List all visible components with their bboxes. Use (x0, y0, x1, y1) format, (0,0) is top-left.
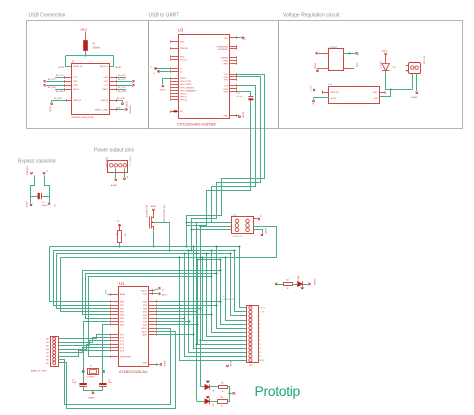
wire ADC6 to wrap (156, 328, 171, 330)
net arrow VIN (355, 52, 357, 55)
wire PD4 to mesh (156, 314, 212, 316)
svg-text:GOUT: GOUT (331, 98, 338, 100)
wire bypass to AGND (30, 196, 32, 203)
wire bus line 2 (53, 250, 235, 252)
capacitor C3 100nF (38, 193, 40, 199)
svg-text:GND_B: GND_B (100, 100, 108, 102)
resistor R6 1k (219, 386, 228, 389)
wire JP2 fan row6 (217, 247, 247, 329)
wire JP2 fan row1 (240, 247, 247, 308)
wire JP2 fan row9 (203, 258, 247, 341)
wire crystal gnd rail (83, 390, 103, 392)
svg-text:GND_A: GND_A (73, 99, 81, 102)
wire D2 to AGND (303, 284, 308, 286)
pin DN1 with net arrow (64, 85, 71, 87)
wire analog A5 (59, 351, 111, 357)
regulator output pin AVCC (323, 92, 329, 94)
wire nest line2 PB5 (86, 274, 217, 319)
svg-text:A1.B1: A1.B1 (116, 66, 123, 69)
wire XTAL1 to PB6 (84, 322, 111, 371)
svg-text:UGND: UGND (49, 106, 51, 112)
regulator enable pin wire to 5V (314, 97, 329, 99)
wire bypass left stub (31, 176, 35, 197)
LED D5 RX (206, 396, 210, 398)
terminal X1 pin 2 wire (344, 53, 355, 55)
resistor R3 1k (284, 283, 293, 286)
svg-text:Bypass capacitor: Bypass capacitor (18, 159, 56, 165)
svg-text:USB Connection: USB Connection (29, 13, 66, 19)
wire bundle tail W3 (192, 183, 217, 251)
U1 right pins PD0-PD7 ADC (149, 301, 156, 303)
wire VBUS to diode D1 (385, 55, 387, 64)
wire JP2 fan row11 (194, 247, 247, 349)
svg-text:AGND: AGND (264, 228, 267, 234)
wire PD6 to mesh (156, 321, 189, 323)
wire bypass right stub (45, 176, 50, 197)
wire JP2 fan row14 (180, 258, 247, 361)
svg-text:DN2: DN2 (104, 77, 109, 79)
capacitor C2 (99, 383, 106, 385)
wire bypass cap row (31, 196, 38, 198)
svg-text:VREGIN: VREGIN (180, 48, 188, 50)
svg-text:D-: D- (180, 71, 183, 73)
U3 right pins (230, 37, 237, 39)
capacitor C9 100nF (248, 96, 253, 98)
ground UGND left (50, 103, 53, 105)
wire junction to regulator VIN (380, 90, 391, 97)
regulator IC1 (329, 87, 380, 104)
svg-text:B7_CC2: B7_CC2 (118, 87, 126, 89)
svg-text:PWR_PINS: PWR_PINS (105, 157, 107, 168)
wire DTR to capacitor C9 (237, 92, 251, 97)
net label VBUS at U3 (163, 79, 171, 85)
svg-text:VBUS: VBUS (180, 78, 186, 80)
U3 NC pin mark (174, 110, 178, 112)
wire VBUS rail (66, 55, 114, 57)
wire RXD from U3 (197, 77, 261, 219)
svg-text:AGND: AGND (313, 279, 316, 285)
svg-text:GPIO.5: GPIO.5 (180, 97, 188, 99)
wire TX LED feeder bend (201, 386, 205, 388)
svg-text:VBUS: VBUS (80, 28, 87, 32)
svg-text:1k: 1k (221, 405, 223, 407)
svg-text:ADC6: ADC6 (141, 327, 147, 330)
ground AGND near JP2 (226, 365, 229, 367)
svg-text:GPIO.2/RS485: GPIO.2/RS485 (180, 87, 195, 89)
net arrow AVCC at U1 VCC (153, 293, 158, 295)
svg-text:MIC5205: MIC5205 (331, 92, 340, 94)
wire analog A1 (59, 338, 111, 343)
U1 pin AREF (111, 294, 118, 296)
net arrow 5V bypass (48, 203, 51, 205)
svg-text:PINHD-1X4: PINHD-1X4 (128, 156, 130, 167)
wire diode to gnd rail (386, 71, 413, 90)
svg-text:AREF: AREF (104, 290, 107, 296)
svg-text:AVCC: AVCC (162, 294, 168, 297)
wire bus line 4 (60, 257, 277, 259)
node LED 5V junction (228, 392, 230, 394)
ground AGND jack (416, 92, 419, 94)
net arrow AGND at D2 (308, 283, 310, 286)
wire jack pin2 to AGND (416, 74, 418, 92)
svg-text:ADC7: ADC7 (141, 330, 147, 333)
svg-text:GPIO.6: GPIO.6 (180, 99, 188, 101)
wire CTS from U3 (192, 86, 256, 223)
svg-text:A6_DP1: A6_DP1 (48, 78, 56, 81)
wire bus line 3 (57, 253, 230, 255)
ground AGND crystal (92, 392, 95, 394)
wire PD7 to mesh (156, 324, 198, 326)
frame USB to UART box (149, 21, 279, 129)
terminal X1 gnd wire (318, 69, 329, 70)
frame USB Connection box (27, 21, 149, 129)
wire C2 down (102, 386, 104, 390)
wire ISP AGND (254, 230, 263, 234)
wire JP2 fan row2 (235, 251, 247, 312)
LED D2 PWR (298, 281, 303, 287)
svg-text:CHR1: CHR1 (222, 61, 229, 63)
svg-text:RXD: RXD (224, 77, 229, 79)
net arrow at R3 (276, 283, 278, 286)
svg-text:SUSPEND: SUSPEND (218, 49, 229, 51)
svg-text:CHR0: CHR0 (222, 63, 229, 65)
wire bus line 5 (198, 259, 221, 261)
svg-text:AVCC: AVCC (309, 86, 312, 92)
svg-text:A5_CC1: A5_CC1 (56, 74, 64, 77)
diode D1 1N4007 (382, 64, 390, 71)
svg-text:CHREN: CHREN (221, 58, 229, 60)
power 5V at R1 (118, 225, 121, 227)
ground UGND right (121, 103, 124, 105)
svg-text:Voltage Regulation circuit: Voltage Regulation circuit (283, 13, 340, 19)
wire to VBUS_B pin (110, 56, 114, 67)
wire bus1 left wrap to PB0 (50, 247, 111, 302)
svg-text:22pF: 22pF (108, 382, 113, 384)
pin DP1 with net arrow (64, 81, 71, 83)
wire fuse to VBUS node (85, 51, 87, 56)
wire JP2 fan row4 (226, 258, 247, 321)
wire JP2 fan row10 (198, 260, 247, 345)
wire analog A0 (59, 335, 111, 339)
svg-text:1k: 1k (222, 391, 224, 393)
svg-text:A7_DN1: A7_DN1 (48, 86, 56, 89)
wire JP2 fan row12 (189, 251, 247, 353)
wire C9 down the bundle (187, 101, 251, 226)
wire reset switch to bus (153, 231, 155, 247)
svg-text:1 (RX): 1 (RX) (259, 308, 265, 310)
svg-text:Power output pins: Power output pins (94, 148, 135, 154)
svg-text:GND: GND (142, 363, 147, 365)
pin DN2 (110, 77, 117, 79)
pin CC2 with net arrow (110, 85, 117, 87)
svg-text:C-16MHz: C-16MHz (86, 377, 94, 379)
wire analog A3 (59, 345, 111, 350)
ground AGND bypass (30, 204, 33, 206)
wire XTAL2 to PB7 (103, 325, 111, 371)
wire power header 5V stub (124, 168, 126, 177)
svg-text:A8_SBU1: A8_SBU1 (56, 90, 66, 93)
wire ISP RESET (192, 229, 232, 231)
svg-text:GPIO.0/TXT: GPIO.0/TXT (180, 81, 192, 83)
svg-text:PGND: PGND (314, 63, 316, 69)
pin CC1 (64, 77, 71, 79)
svg-text:B5_DN2: B5_DN2 (118, 75, 126, 77)
wire crystal right to C2 (102, 373, 104, 383)
wire JP2 fan row3 (231, 254, 247, 316)
wire PD2 to mesh (156, 308, 201, 310)
svg-text:B1_GND: B1_GND (117, 98, 126, 100)
wire JP2 row9 from TX feeder (201, 340, 247, 342)
wire JP2 row10 from RX feeder (197, 344, 247, 346)
net arrow D- (158, 71, 171, 73)
node gate junction (168, 249, 170, 251)
svg-text:AGND: AGND (163, 361, 166, 367)
svg-text:B6_DP2: B6_DP2 (118, 79, 126, 81)
connector J5 USB-C receptacle (72, 64, 110, 115)
pin SBU1 (64, 89, 71, 91)
svg-text:22pF: 22pF (72, 382, 77, 384)
svg-text:CTS: CTS (224, 86, 229, 88)
svg-text:AVCC: AVCC (141, 290, 147, 293)
node R1 junction (118, 245, 120, 247)
wire nest line3 RESET (89, 277, 212, 357)
svg-text:UGND: UGND (125, 101, 127, 107)
wire to VBUS_A pin (66, 56, 72, 67)
wire PD3 to mesh (156, 311, 197, 313)
regulator GND pin stub (380, 92, 386, 94)
wire nest line1 PB4 (83, 271, 221, 315)
U1 GND pin wire (149, 364, 156, 366)
wire power header AGND stub (115, 168, 117, 178)
resistor R4 1k (218, 400, 228, 404)
net arrow D+ (155, 68, 171, 70)
svg-text:ATMEGA328-AU: ATMEGA328-AU (119, 370, 148, 374)
wire analog A4 (59, 348, 111, 353)
svg-text:2 (TX): 2 (TX) (259, 312, 265, 314)
wire switch gate to bus2 (155, 223, 170, 251)
svg-text:SHELL_GND: SHELL_GND (95, 109, 108, 111)
ground AGND at ISP (261, 234, 264, 236)
svg-text:ANALOG_PINS: ANALOG_PINS (31, 370, 47, 373)
LED D4 TX (206, 381, 210, 383)
resistor R1 10k (118, 231, 122, 243)
svg-text:VIN: VIN (374, 98, 378, 100)
svg-text:D-: D- (154, 73, 156, 75)
net arrow 5V power header (123, 178, 126, 180)
wire crystal left to C1 (83, 373, 85, 383)
svg-text:B8_GND: B8_GND (54, 98, 63, 100)
svg-text:0.1 uF: 0.1 uF (236, 96, 243, 98)
svg-text:PINHD-1X14: PINHD-1X14 (223, 299, 235, 301)
svg-text:GND: GND (373, 92, 378, 94)
svg-text:GND: GND (223, 115, 228, 117)
wire PD1 to mesh (156, 305, 216, 307)
svg-text:Prototip: Prototip (255, 383, 301, 399)
pin GND_A wire to UGND (66, 100, 71, 102)
wire bus3 left wrap to PB2 (57, 254, 111, 309)
svg-text:1N4007: 1N4007 (379, 61, 381, 69)
svg-text:VBUS: VBUS (382, 50, 388, 52)
power jack J4 (409, 63, 421, 74)
wire JP2 fan row8 (207, 254, 247, 337)
wire JP2 fan row5 (221, 260, 247, 325)
U1 power pins right (149, 290, 153, 292)
svg-text:AGND: AGND (242, 112, 245, 118)
pin DP2 with net arrow (110, 81, 117, 83)
svg-text:PINHD-2X3: PINHD-2X3 (232, 236, 243, 238)
svg-text:VBUS_A: VBUS_A (73, 65, 82, 68)
wire bundle tail W4 (187, 179, 222, 247)
svg-text:AGND: AGND (229, 361, 232, 367)
node regulator gnd junction (389, 88, 391, 90)
svg-text:RTS: RTS (224, 80, 229, 82)
svg-text:DSR: DSR (224, 89, 229, 91)
header JP3 analog pins (51, 337, 59, 367)
wire PD0 to mesh (156, 301, 221, 303)
wire ADC7 to wrap (156, 331, 175, 333)
node reset switch junction (152, 245, 154, 247)
wire AIN1 to mesh (156, 334, 193, 336)
wire bus4 left wrap to PB3 (61, 258, 111, 312)
ground AGND power header (115, 179, 118, 181)
svg-text:AGND: AGND (111, 184, 118, 187)
wire RX LED feeder bend (197, 401, 205, 403)
wire ISP MISO (187, 222, 232, 224)
svg-text:USHIELD: USHIELD (129, 105, 131, 114)
wire D4 to R6 (210, 386, 218, 388)
pin SBU2 (110, 89, 117, 91)
U3 left pins (171, 41, 178, 43)
wire R1 to bus (119, 242, 121, 246)
power 5V at ISP (253, 218, 257, 220)
wire C1 down (83, 386, 85, 390)
wire JP2 fan row7 (212, 251, 247, 333)
power 5V at U3 VDD (237, 37, 242, 39)
svg-text:PC6/RESET: PC6/RESET (120, 356, 132, 358)
wire PD5 to mesh (156, 318, 185, 320)
svg-text:B8_SBU2: B8_SBU2 (118, 91, 128, 93)
svg-text:RST: RST (180, 41, 185, 43)
svg-text:DVCLS: DVCLS (180, 59, 188, 61)
wire R3 to LED D2 (292, 284, 298, 286)
svg-text:TRI_SWITCH(GND): TRI_SWITCH(GND) (163, 205, 165, 223)
svg-text:VCC: VCC (143, 294, 148, 296)
svg-text:USB4085-GF-A_REVA: USB4085-GF-A_REVA (71, 116, 94, 119)
svg-text:GPIO.1/RXT: GPIO.1/RXT (180, 84, 192, 86)
svg-text:SBU1: SBU1 (73, 89, 79, 91)
fuse F1 500mA (84, 41, 88, 51)
wire bundle tail W2 RX feeder (197, 187, 212, 402)
terminal X1 pin 1 wire (318, 53, 328, 55)
capacitor C1 (79, 383, 86, 385)
svg-text:TXD: TXD (224, 74, 229, 76)
wire VBUS to fuse (85, 32, 87, 41)
wire analog A6 wrap (59, 329, 171, 405)
svg-text:PJ-102A: PJ-102A (422, 56, 425, 64)
U1 RESET pin (111, 356, 118, 358)
wire R4 to 5V node (228, 394, 230, 402)
wire ISP MOSI loop (254, 227, 277, 258)
svg-text:USB to UART: USB to UART (149, 13, 180, 19)
frame Voltage Regulation box (279, 21, 463, 129)
svg-text:10k: 10k (124, 233, 126, 236)
svg-text:USHIELD: USHIELD (26, 167, 28, 176)
wire ISP SCK (201, 226, 232, 228)
wire TXD from U3 (202, 75, 265, 216)
svg-text:U1: U1 (119, 281, 125, 286)
U1 PB pins left (111, 301, 118, 303)
pin GND_B wire to UGND (110, 100, 117, 102)
svg-text:VBUS: VBUS (160, 90, 166, 92)
svg-text:PWR: PWR (298, 275, 300, 280)
svg-text:CC2: CC2 (104, 85, 109, 87)
wire R6 to 5V node (228, 387, 230, 394)
svg-text:CP2102N-A02-DQFN28: CP2102N-A02-DQFN28 (177, 123, 216, 127)
svg-text:AREF: AREF (120, 293, 126, 296)
svg-text:U3: U3 (178, 28, 184, 33)
svg-text:SBU2: SBU2 (102, 89, 108, 91)
svg-text:GPIO.3/WAKEUP: GPIO.3/WAKEUP (180, 89, 197, 92)
transistor Q1 reset switch (153, 210, 155, 214)
svg-text:DN1: DN1 (73, 85, 78, 87)
svg-text:AGND: AGND (151, 205, 157, 208)
net arrow USHIELD (30, 172, 33, 174)
svg-text:DTR: DTR (224, 92, 229, 94)
wire JP2 fan row13 (185, 254, 247, 357)
wire bypass to 5V (49, 196, 51, 202)
svg-text:A1.B1: A1.B1 (59, 66, 66, 69)
wire analog A7 wrap (59, 332, 176, 409)
ground AGND at U1 (160, 363, 162, 366)
svg-text:AREF: AREF (259, 359, 265, 362)
wire bus2 left wrap to PB1 (54, 251, 111, 306)
svg-text:100nF: 100nF (42, 205, 49, 207)
ground AGND at U3 GND (237, 115, 240, 117)
svg-text:AGND: AGND (25, 202, 28, 208)
svg-text:NC: NC (180, 111, 184, 113)
U1 PC pins left (111, 334, 118, 336)
ground PGND (316, 70, 319, 72)
pin SHELL_GND with net arrow (110, 109, 117, 111)
wire D5 to R4 (210, 401, 218, 403)
svg-text:AGND: AGND (88, 397, 95, 400)
node VBUS junction (84, 54, 86, 56)
svg-text:GPIO.4: GPIO.4 (180, 94, 188, 96)
svg-text:VDD: VDD (180, 56, 185, 58)
terminal X1 VIN wire (344, 68, 354, 70)
svg-text:1k: 1k (287, 288, 289, 290)
wire analog A2 (59, 341, 111, 346)
wire bus line 1 (49, 246, 239, 248)
svg-text:AGND: AGND (412, 96, 419, 99)
net arrow 5V at U1 AVCC (153, 289, 158, 291)
wire jack pin1 down (412, 74, 414, 90)
svg-text:CC1: CC1 (73, 77, 78, 79)
svg-text:500mA: 500mA (93, 47, 101, 50)
net arrow D (43, 172, 46, 174)
wire bundle tail W1 TX feeder (201, 191, 207, 387)
svg-text:RST_SWITCH: RST_SWITCH (145, 205, 147, 219)
net arrow 5V LEDs (230, 393, 232, 395)
svg-text:VBUS_B: VBUS_B (99, 66, 108, 68)
svg-text:VDD: VDD (224, 38, 229, 40)
header JP4 power output pins (108, 161, 128, 173)
